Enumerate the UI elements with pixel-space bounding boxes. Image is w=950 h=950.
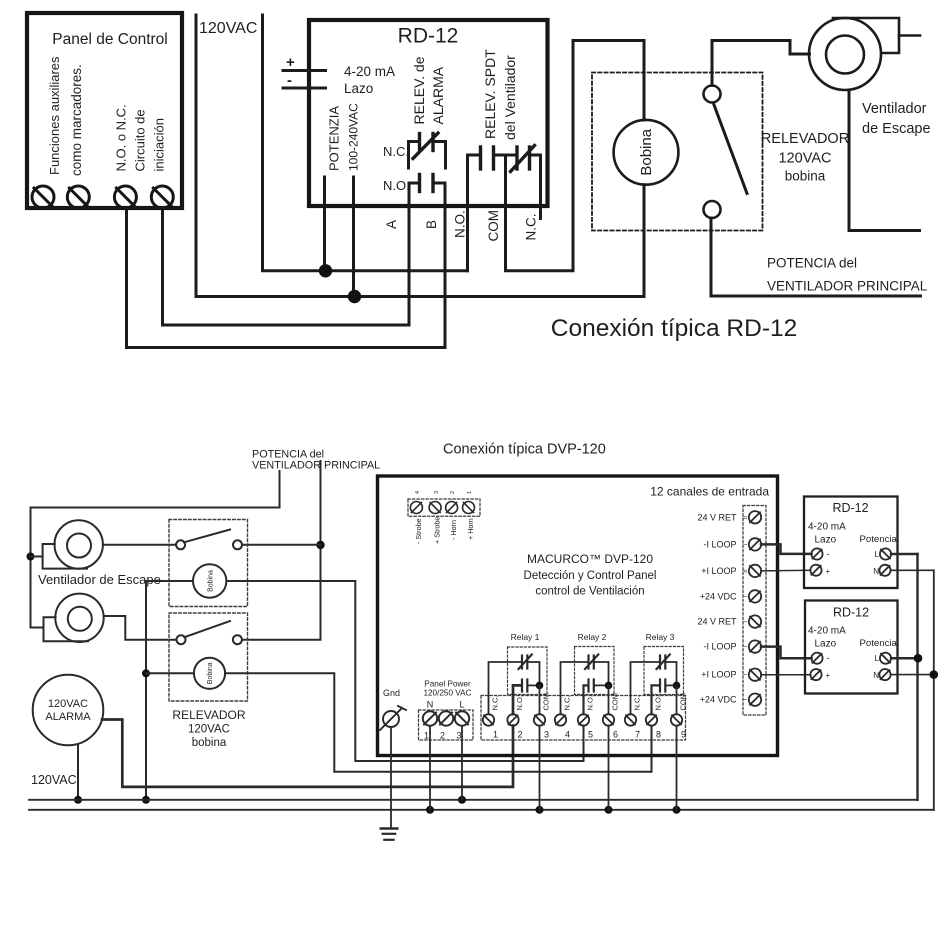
wire U4 L to L riser (thick) (891, 657, 918, 660)
terminal screw +24 VDC (1) (749, 590, 761, 602)
svg-text:+I LOOP: +I LOOP (701, 566, 736, 576)
svg-text:+24 VDC: +24 VDC (700, 592, 737, 602)
relay 1 N.O. contact (to screw 2, thick) (513, 680, 540, 715)
wire stub to blower1 inlet (31, 556, 43, 558)
svg-text:120VAC: 120VAC (188, 724, 230, 736)
svg-text:Lazo: Lazo (815, 535, 837, 546)
svg-text:COM: COM (542, 693, 551, 711)
wire Bobina bottom to 120VAC bus y296 (643, 185, 646, 297)
svg-text:Lazo: Lazo (344, 81, 373, 96)
capacitor-style 4-20mA loop terminal plates (283, 71, 326, 89)
junction dot relay2 COM node (605, 682, 613, 690)
svg-text:100-240VAC: 100-240VAC (347, 103, 361, 171)
contact K2 SPDT N.C. side with slash and stub (506, 146, 541, 219)
bus2 rail y810 (29, 809, 934, 811)
svg-text:L: L (875, 654, 880, 663)
wire 120VAC line2 to horizontal bus y271 (263, 15, 468, 271)
svg-text:RELEV. de: RELEV. de (411, 56, 427, 124)
junction dot relay3 COM node (673, 682, 681, 690)
svg-text:RELEVADOR: RELEVADOR (761, 131, 849, 147)
wire bus x146 down to bus1 (145, 581, 147, 800)
svg-text:VENTILADOR PRINCIPAL: VENTILADOR PRINCIPAL (767, 279, 928, 294)
svg-text:N: N (873, 567, 879, 576)
terminal screw U4 N (879, 669, 890, 680)
wire -I LOOP2 to RD12b minus (thick) (761, 647, 812, 659)
svg-text:del Ventilador: del Ventilador (502, 55, 518, 140)
junction dot U4 N on riser (930, 670, 939, 679)
svg-text:control de Ventilación: control de Ventilación (535, 586, 644, 598)
terminal screw 9 (COM) (671, 714, 682, 725)
contact K1 alarm relay N.C. (bars with slash, stub leads) (409, 133, 446, 168)
svg-text:Panel de Control: Panel de Control (52, 31, 167, 48)
RD-12 main box U1 (309, 20, 548, 206)
terminal screw 24V RET (2) (749, 615, 761, 627)
svg-text:3: 3 (434, 491, 440, 494)
wire pin COM to relay coil (up and over to Bobina top) (506, 41, 645, 271)
junction dot at POTENZIA pin2 / y296 bus (348, 290, 361, 303)
svg-text:RD-12: RD-12 (398, 25, 459, 48)
svg-text:9: 9 (681, 730, 686, 740)
RD-12 sensor box U4 (805, 601, 898, 694)
svg-text:N.O.: N.O. (515, 695, 524, 710)
junction dot relay1 COM node (536, 682, 544, 690)
svg-text:bobina: bobina (785, 169, 826, 184)
switch SW3 contacts of relay B (177, 621, 242, 644)
svg-text:~: ~ (743, 670, 748, 679)
terminal screw 4 (N.C.) (555, 714, 566, 725)
wire relay3 COM node to screw9 (676, 685, 678, 714)
junction dot x146 on bus1 (142, 796, 150, 804)
junction dot Panel L on bus1 (458, 796, 466, 804)
junction dot bobinaB tap on x146 bus (142, 669, 150, 677)
terminal screw T2 of panel (67, 186, 89, 208)
svg-text:N: N (427, 700, 434, 710)
svg-text:Potencia: Potencia (860, 638, 898, 649)
svg-text:-I LOOP: -I LOOP (703, 540, 736, 550)
terminal screw +24 VDC (2) (749, 694, 761, 706)
terminal screw U3 N (879, 565, 890, 576)
svg-text:N.O. o N.C.: N.O. o N.C. (114, 104, 129, 171)
strobe/horn terminal strip dashed box (408, 499, 480, 516)
relay 2 N.C. contact (561, 655, 609, 715)
svg-text:≈: ≈ (743, 513, 747, 522)
junction dot alarm on bus1 (74, 796, 82, 804)
relay B coil Bobina circle (194, 658, 225, 689)
svg-text:-: - (827, 653, 830, 663)
svg-text:≈: ≈ (743, 567, 747, 576)
svg-text:2: 2 (518, 730, 523, 740)
svg-text:8: 8 (656, 730, 661, 740)
svg-text:como marcadores.: como marcadores. (69, 64, 84, 176)
svg-text:6: 6 (613, 730, 618, 740)
blower fan M3 lower (44, 594, 177, 642)
svg-text:Panel Power: Panel Power (424, 680, 471, 689)
terminal screw 3 (COM) (534, 714, 545, 725)
wire U4 N to N riser (891, 674, 934, 676)
svg-text:+: + (286, 54, 295, 71)
terminal screw -Strobe (410, 502, 422, 514)
terminal screw -Horn (446, 502, 458, 514)
svg-text:Bobina: Bobina (638, 128, 655, 175)
terminal screw L (455, 711, 469, 725)
wire fan bottom to right rail (849, 90, 920, 231)
wire relay1 COM node to screw3 (539, 685, 541, 714)
alarm bell 120VAC ALARMA circle (33, 675, 104, 746)
wire bobinaA right to DVP relay2 screw5 (226, 581, 583, 761)
svg-text:1: 1 (467, 491, 473, 494)
svg-text:120VAC: 120VAC (199, 20, 257, 37)
contact K1 alarm relay N.O. (409, 175, 445, 207)
junction dot blower1 tap (27, 553, 35, 561)
wire relay2 COM node to screw6 (608, 685, 610, 714)
terminal screw U4 L (880, 653, 891, 664)
terminal screw T4 of panel (151, 186, 173, 208)
wire relay1 COM screw3 to bus2 (539, 726, 541, 810)
switch SW1 top terminal circle (704, 86, 721, 103)
svg-text:+: + (826, 567, 831, 576)
wire POTENCIA feed to blower bus (31, 471, 280, 628)
svg-text:COM: COM (486, 210, 501, 242)
svg-text:~: ~ (743, 642, 748, 651)
svg-text:Circuito de: Circuito de (133, 109, 148, 171)
svg-text:Detección y Control Panel: Detección y Control Panel (524, 570, 657, 582)
svg-text:7: 7 (635, 730, 640, 740)
svg-text:+ Horn: + Horn (466, 518, 475, 540)
terminal screw T1 of panel (32, 186, 54, 208)
switch SW1 bottom terminal circle (704, 201, 721, 218)
svg-text:2: 2 (450, 491, 456, 494)
svg-text:L: L (459, 700, 464, 710)
relay B dashed outline box (169, 613, 248, 701)
terminal screw 7 (N.C.) (625, 714, 636, 725)
wire 120VAC line1 to horizontal bus y296 (196, 15, 644, 297)
svg-text:de Escape: de Escape (862, 121, 931, 137)
svg-text:1: 1 (493, 730, 498, 740)
svg-text:N: N (873, 671, 879, 680)
svg-text:COM: COM (679, 693, 688, 711)
wire switch top to fan inlet (712, 41, 810, 86)
svg-text:120VAC: 120VAC (31, 773, 77, 787)
svg-text:4-20 mA: 4-20 mA (808, 626, 846, 637)
svg-text:2: 2 (440, 731, 445, 741)
blower fan M2 Ventilador de Escape upper (43, 520, 176, 568)
svg-text:24 V RET: 24 V RET (697, 617, 737, 627)
svg-text:N.O.: N.O. (586, 695, 595, 710)
relay 1 dashed box (508, 647, 548, 695)
ground earth symbol (381, 829, 398, 840)
svg-text:Ventilador de Escape: Ventilador de Escape (38, 572, 161, 587)
DVP-120 panel box U2 (378, 476, 778, 756)
svg-text:Ventilador: Ventilador (862, 101, 927, 117)
svg-text:MACURCO™ DVP-120: MACURCO™ DVP-120 (527, 552, 653, 566)
svg-text:120/250 VAC: 120/250 VAC (423, 689, 471, 698)
svg-text:N.O.: N.O. (453, 210, 468, 238)
svg-text:- Strobe: - Strobe (414, 518, 423, 544)
wire panel T4 to pin A (163, 208, 410, 325)
svg-text:bobina: bobina (192, 737, 227, 749)
junction dot relay3 COM on bus2 (673, 806, 681, 814)
junction dot U4 L on riser (914, 654, 923, 663)
switch SW1 blade (714, 104, 748, 194)
svg-text:L: L (875, 550, 880, 559)
wire L riser right side (916, 554, 918, 800)
svg-text:Lazo: Lazo (815, 639, 837, 650)
wire switch1 output to riser (242, 544, 321, 546)
bus1 neutral rail y800 (29, 799, 918, 801)
svg-text:POTENZIA: POTENZIA (327, 106, 342, 171)
relay 3 dashed box (644, 647, 684, 695)
svg-text:ALARMA: ALARMA (430, 66, 446, 124)
svg-text:Gnd: Gnd (383, 688, 400, 698)
svg-text:-: - (827, 549, 830, 559)
pin POTENZIA-2 wire down to junction (352, 177, 355, 297)
svg-text:Relay 2: Relay 2 (578, 632, 607, 642)
wire relay3 COM screw9 to bus2 (676, 726, 678, 810)
svg-text:RELEVADOR: RELEVADOR (172, 708, 245, 722)
terminal screw N (423, 711, 437, 725)
svg-text:Bobina: Bobina (207, 570, 214, 592)
svg-text:N.C.: N.C. (633, 696, 642, 711)
wire pin B down to bus y347 (444, 183, 447, 348)
svg-text:+24 VDC: +24 VDC (700, 695, 737, 705)
wire panel T3 to pin B (127, 208, 446, 348)
svg-text:Funciones auxiliares: Funciones auxiliares (47, 56, 62, 175)
input channel terminal column dashed box (743, 506, 766, 716)
pin POTENZIA-1 wire down to junction (323, 177, 326, 271)
wire bobinaB right to DVP relay3 screw8 (225, 673, 651, 772)
terminal screw U4 minus (811, 653, 822, 664)
wire relay2 COM screw6 to bus2 (608, 726, 610, 810)
relay 3 N.O. contact (to screw 8) (652, 680, 677, 715)
terminal screw +I LOOP (2) (749, 669, 761, 681)
svg-text:Conexión típica DVP-120: Conexión típica DVP-120 (443, 442, 606, 458)
svg-text:Relay 1: Relay 1 (511, 632, 540, 642)
panel power dashed box (419, 710, 474, 740)
terminal screw 24V RET (1) (749, 511, 761, 523)
svg-text:ALARMA: ALARMA (45, 711, 91, 723)
svg-text:POTENCIA del: POTENCIA del (767, 256, 857, 271)
wire POTENCIA return riser x320 with switch outputs (242, 461, 321, 640)
svg-text:N.C.: N.C. (491, 696, 500, 711)
terminal screw 8 (N.O.) (646, 714, 657, 725)
junction dot relay2 COM on bus2 (605, 806, 613, 814)
wire U3 L to L riser (thick) (891, 553, 917, 556)
wire +I LOOP2 to RD12b plus (761, 674, 811, 676)
svg-text:120VAC: 120VAC (779, 151, 832, 167)
wire bobinaA left to x146 bus (146, 580, 193, 582)
svg-text:RD-12: RD-12 (833, 606, 869, 620)
wire screw L to bus1 (461, 727, 463, 800)
svg-text:COM: COM (611, 693, 620, 711)
terminal screw -I LOOP (2) (749, 640, 761, 652)
svg-text:120VAC: 120VAC (48, 698, 88, 710)
terminal screw 6 (COM) (603, 714, 614, 725)
wire -I LOOP1 to RD12a minus (thick) (761, 544, 812, 554)
svg-text:3: 3 (544, 730, 549, 740)
junction dot switch outputs at (320,545) (316, 541, 324, 549)
svg-text:~: ~ (743, 617, 748, 626)
relay 1 N.C. contact (489, 655, 540, 715)
terminal screw U3 plus (810, 565, 821, 576)
svg-text:N.O.: N.O. (383, 178, 410, 193)
terminal screw +I LOOP (1) (749, 565, 761, 577)
terminal screw 1 (N.C.) (483, 714, 494, 725)
svg-text:N.C.: N.C. (383, 144, 409, 159)
svg-text:4: 4 (565, 730, 570, 740)
terminal screw +Strobe (429, 502, 441, 514)
svg-text:24 V RET: 24 V RET (697, 513, 737, 523)
svg-text:~: ~ (743, 540, 748, 549)
terminal screw mid (439, 711, 453, 725)
terminal screw U3 minus (811, 548, 822, 559)
RD-12 sensor box U3 (804, 497, 898, 589)
relay 2 N.O. contact (to screw 5) (584, 680, 609, 715)
svg-text:4-20 mA: 4-20 mA (344, 64, 395, 79)
junction dot at POTENZIA pin1 / y271 bus (319, 264, 332, 277)
terminal screw U3 L (880, 548, 891, 559)
junction dot Panel N on bus2 (426, 806, 434, 814)
svg-text:~: ~ (743, 592, 748, 601)
wire alarm to DVP relay1 screw2 (thick) (102, 720, 513, 787)
terminal screw +Horn (463, 502, 475, 514)
wire bobinaB left to x146 bus (146, 672, 194, 674)
wire U3 N to N riser (891, 569, 934, 571)
contact K2 SPDT N.O. side with lead to pin N.O. (468, 147, 506, 271)
relay coil Bobina (circle) (614, 120, 679, 185)
svg-text:Potencia: Potencia (860, 534, 898, 545)
svg-text:12 canales de entrada: 12 canales de entrada (650, 485, 769, 499)
svg-text:B: B (424, 220, 439, 229)
terminal screw T3 of panel (114, 186, 136, 208)
wire Gnd to earth (390, 727, 392, 828)
svg-text:Conexión típica RD-12: Conexión típica RD-12 (551, 315, 797, 342)
terminal screw Gnd (380, 706, 406, 730)
relay K3 dashed outline box (592, 73, 763, 231)
svg-text:~: ~ (743, 695, 748, 704)
relay 3 N.C. contact (631, 655, 677, 715)
svg-text:4-20 mA: 4-20 mA (808, 522, 846, 533)
svg-text:iniciación: iniciación (152, 118, 167, 171)
svg-text:N.C.: N.C. (563, 696, 572, 711)
relay strip dashed box (9 screws) (481, 696, 686, 741)
wire +I LOOP1 to RD12a plus (761, 569, 811, 572)
blower fan M1 Ventilador de Escape (scroll housing) (809, 18, 920, 90)
svg-text:- Horn: - Horn (449, 520, 458, 540)
relay 2 dashed box (575, 647, 615, 695)
junction dot relay1 COM on bus2 (536, 806, 544, 814)
wire screw N to bus2 (429, 727, 431, 810)
svg-text:+I LOOP: +I LOOP (701, 670, 736, 680)
panel box U10 Panel de Control (27, 13, 182, 208)
svg-text:VENTILADOR PRINCIPAL: VENTILADOR PRINCIPAL (252, 460, 380, 472)
svg-text:+ Strobe: + Strobe (433, 517, 442, 544)
svg-text:N.C.: N.C. (524, 214, 539, 241)
svg-text:1: 1 (424, 731, 429, 741)
terminal screw 5 (N.O.) (578, 714, 589, 725)
svg-text:Relay 3: Relay 3 (646, 632, 675, 642)
wire N riser right side (933, 570, 935, 810)
svg-text:5: 5 (588, 730, 593, 740)
wire pin A down to bus y325 (408, 183, 411, 325)
wire switch bottom to POTENCIA rail (711, 218, 921, 296)
svg-text:4: 4 (415, 491, 421, 494)
terminal screw -I LOOP (1) (749, 538, 761, 550)
relay A dashed outline box (169, 520, 248, 607)
switch SW2 contacts of relay A (176, 530, 242, 550)
relay A coil Bobina circle (193, 564, 226, 597)
svg-text:RD-12: RD-12 (832, 501, 868, 515)
svg-text:-I LOOP: -I LOOP (703, 642, 736, 652)
svg-text:-: - (287, 72, 292, 89)
svg-text:+: + (826, 671, 831, 680)
svg-text:Bobina: Bobina (207, 662, 214, 684)
terminal screw 2 (N.O.) (507, 714, 518, 725)
wire alarm bottom to bus1 (77, 744, 79, 800)
svg-text:3: 3 (457, 731, 462, 741)
svg-text:RELEV. SPDT: RELEV. SPDT (482, 49, 498, 139)
svg-text:A: A (384, 220, 399, 229)
svg-text:N.O.: N.O. (654, 695, 663, 710)
terminal screw U4 plus (810, 669, 821, 680)
